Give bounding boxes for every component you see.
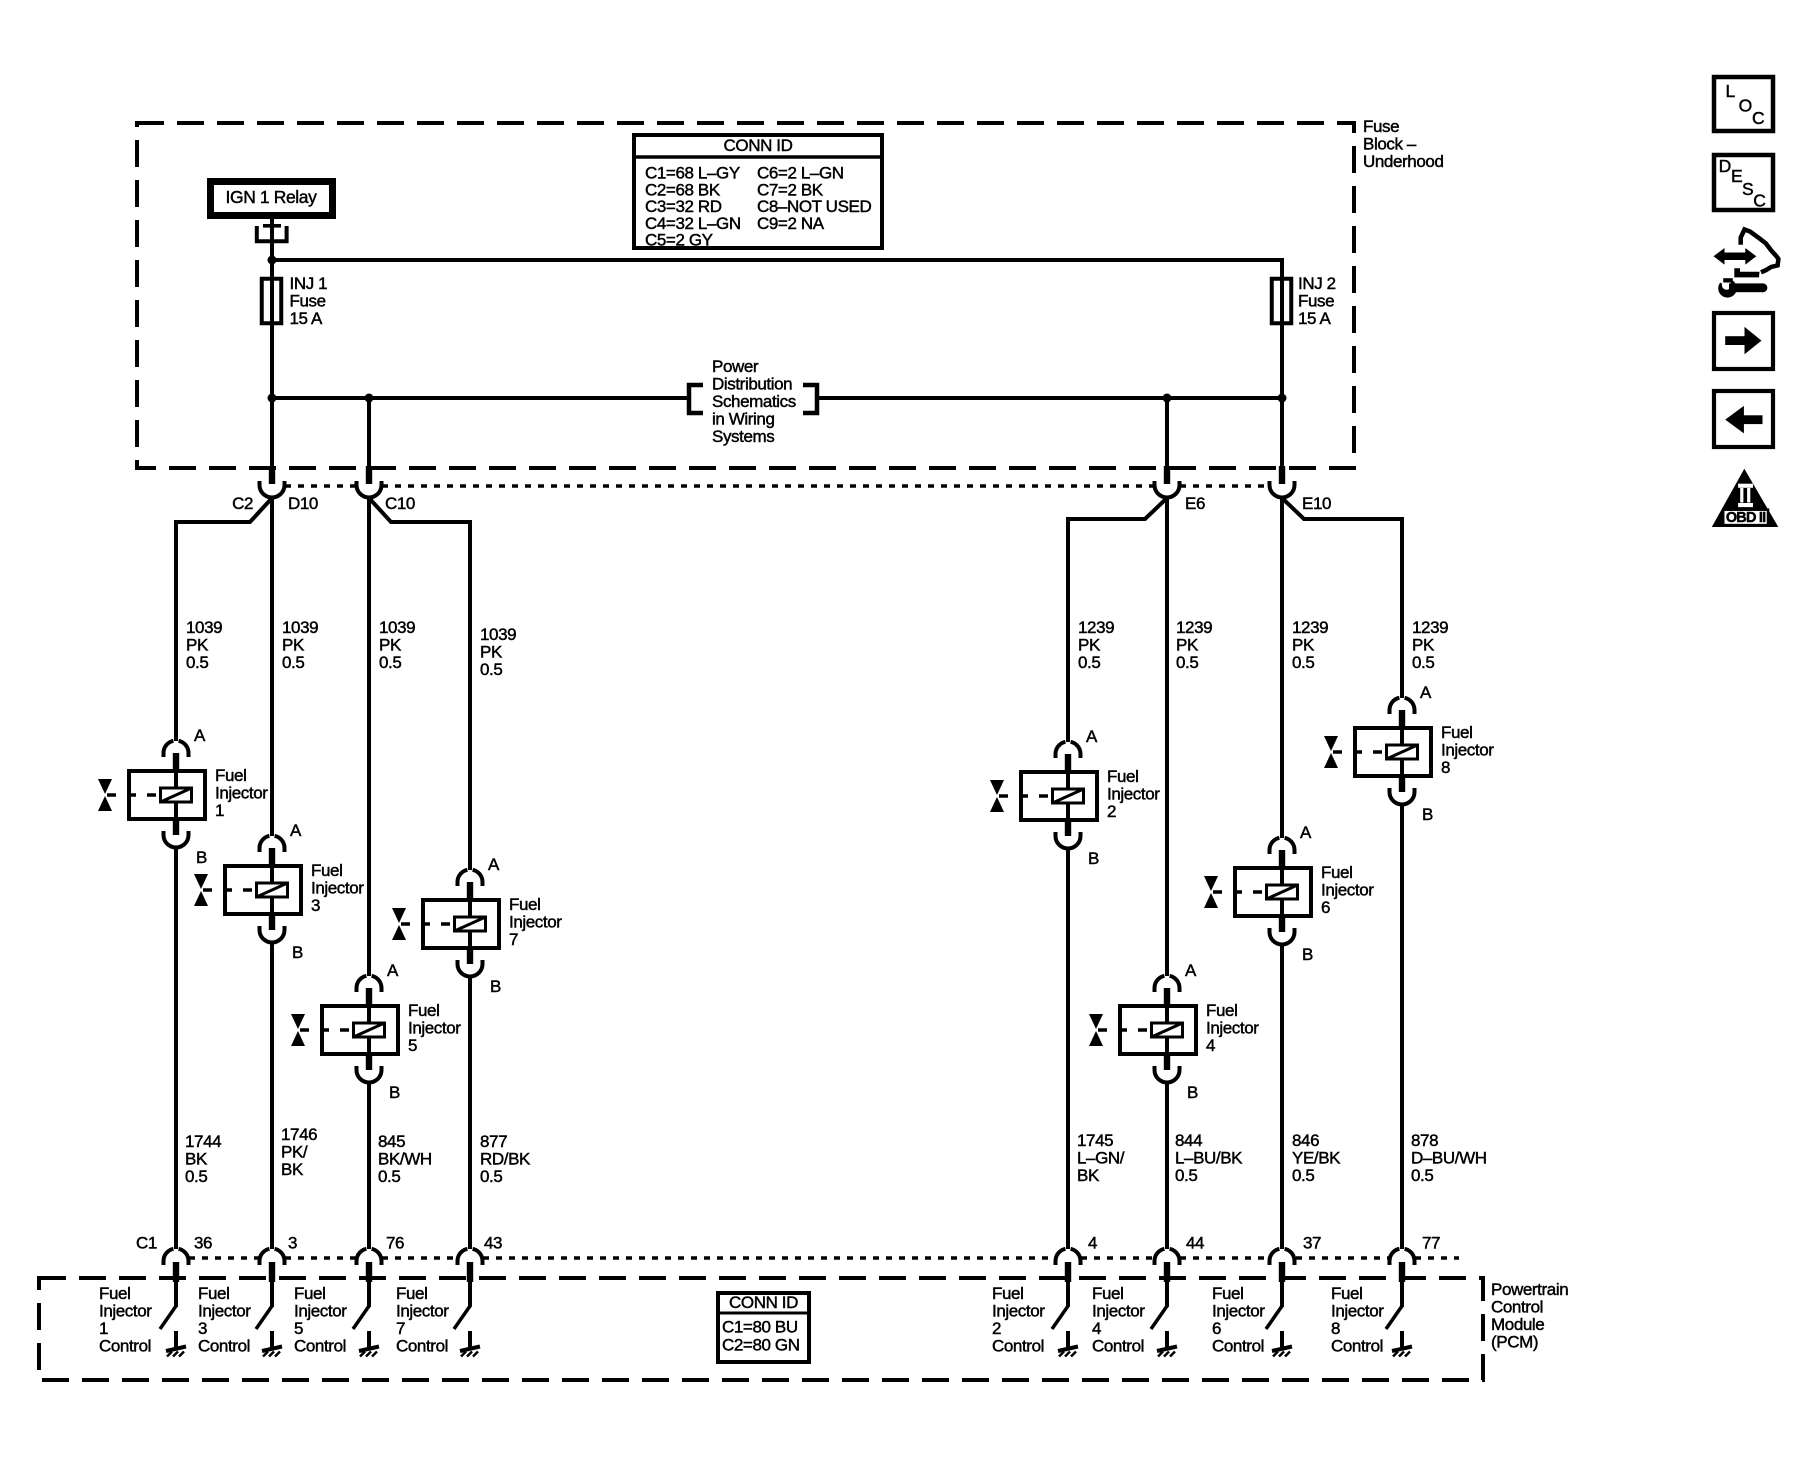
fuse: INJ 2 Fuse 15 A: [1272, 274, 1336, 328]
injector 7 body: [423, 900, 499, 948]
svg-text:Injector: Injector: [1206, 1019, 1259, 1038]
wire label 878 D–BU/WH 0.5: [1411, 1131, 1487, 1185]
connector pin 3: plug: [260, 1249, 285, 1307]
svg-text:B: B: [490, 977, 501, 996]
svg-text:B: B: [1422, 805, 1433, 824]
svg-text:B: B: [196, 848, 207, 867]
svg-text:L–GN/: L–GN/: [1077, 1149, 1125, 1168]
wire label 1746 PK/ BK: [281, 1125, 317, 1179]
dotted connector row: PCM: [189, 1256, 1459, 1260]
svg-text:PK/: PK/: [281, 1143, 308, 1162]
svg-text:Control: Control: [1212, 1337, 1264, 1356]
svg-text:7: 7: [509, 930, 518, 949]
svg-text:15 A: 15 A: [1298, 309, 1331, 328]
wire: relay output down to feed junction: [270, 219, 274, 262]
svg-text:76: 76: [386, 1234, 404, 1253]
fuel injector 4: [1089, 961, 1259, 1102]
svg-text:2: 2: [1107, 802, 1116, 821]
svg-text:O: O: [1739, 96, 1752, 116]
injector 2 body: [1021, 772, 1097, 820]
svg-text:A: A: [1300, 823, 1312, 842]
injector 5 solenoid coil: [354, 1023, 385, 1037]
svg-text:Fuel: Fuel: [396, 1284, 427, 1303]
connector pin 43: plug: [458, 1249, 483, 1307]
injector 1 body: [129, 771, 205, 819]
wire label 1039 PK 0.5: [186, 618, 222, 672]
injector 1 nozzle valve: [107, 793, 159, 797]
connector C2 / D10: terminal stub: [269, 466, 275, 484]
fuse block: Fuse Block - Underhood dashed outline: [137, 123, 1354, 468]
svg-text:Fuel: Fuel: [1441, 723, 1472, 742]
pin A connector of injector 6: [1270, 838, 1280, 854]
wire label 1239 PK 0.5: [1412, 618, 1448, 672]
svg-text:E: E: [1731, 166, 1742, 186]
svg-text:Injector: Injector: [198, 1302, 251, 1321]
svg-text:C1=80 BU: C1=80 BU: [722, 1318, 798, 1337]
svg-text:Fuel: Fuel: [1212, 1284, 1243, 1303]
svg-text:A: A: [488, 855, 500, 874]
svg-text:Control: Control: [1092, 1337, 1144, 1356]
svg-text:8: 8: [1331, 1319, 1340, 1338]
wire label 1745 L–GN/ BK: [1077, 1131, 1125, 1185]
injector 1 solenoid coil: [161, 788, 192, 802]
svg-text:0.5: 0.5: [1411, 1166, 1433, 1185]
connector E6: socket: [1155, 481, 1180, 498]
icon: DESC box: [1714, 155, 1773, 211]
table: CONN ID (PCM): [716, 1293, 811, 1362]
svg-text:OBD II: OBD II: [1726, 510, 1766, 526]
pin A connector of injector 4: [1154, 976, 1164, 992]
wire: D10 straight to injector 3: [270, 498, 274, 836]
wire: bus down to connector E6: [1165, 398, 1169, 467]
driver switch: Fuel Injector 1 Control: [99, 1284, 186, 1357]
connector C10: terminal stub: [366, 466, 372, 484]
svg-text:(PCM): (PCM): [1491, 1333, 1538, 1352]
fuel injector 7: [392, 855, 562, 996]
svg-text:Injector: Injector: [1441, 741, 1494, 760]
driver switch: Fuel Injector 6 Control: [1212, 1284, 1292, 1357]
svg-text:D–BU/WH: D–BU/WH: [1411, 1149, 1487, 1168]
connector pin 76: plug: [357, 1249, 382, 1307]
svg-text:Block –: Block –: [1363, 135, 1417, 154]
svg-text:Fuel: Fuel: [198, 1284, 229, 1303]
pin B connector of injector 1: [173, 819, 179, 835]
svg-text:Fuel: Fuel: [1321, 863, 1352, 882]
svg-text:0.5: 0.5: [186, 653, 208, 672]
wire label 844 L–BU/BK 0.5: [1175, 1131, 1243, 1185]
connector E6: terminal stub: [1164, 466, 1170, 484]
injector 3 nozzle valve: [203, 888, 255, 892]
pin B connector of injector 3: [269, 914, 275, 930]
svg-text:Fuel: Fuel: [992, 1284, 1023, 1303]
svg-text:Fuel: Fuel: [1331, 1284, 1362, 1303]
injector 2 nozzle valve: [999, 794, 1051, 798]
svg-text:Injector: Injector: [1092, 1302, 1145, 1321]
svg-text:0.5: 0.5: [379, 653, 401, 672]
svg-text:2: 2: [992, 1319, 1001, 1338]
svg-text:Fuse: Fuse: [1363, 117, 1399, 136]
svg-text:C1: C1: [136, 1234, 157, 1253]
svg-text:RD/BK: RD/BK: [480, 1150, 531, 1169]
svg-text:B: B: [292, 943, 303, 962]
driver switch: Fuel Injector 8 Control: [1331, 1284, 1412, 1357]
tag: Power Distribution Schematics in Wiring Systems: [689, 357, 817, 446]
connector C2 / D10: socket: [260, 481, 285, 498]
svg-text:C2: C2: [232, 494, 253, 513]
svg-text:44: 44: [1186, 1234, 1204, 1253]
wire: E10 branch to injector 8: [1282, 498, 1402, 698]
injector 8 nozzle valve: [1333, 750, 1385, 754]
svg-text:0.5: 0.5: [1292, 653, 1314, 672]
svg-text:A: A: [194, 726, 206, 745]
svg-text:Fuse: Fuse: [290, 292, 326, 311]
svg-text:1039: 1039: [480, 625, 516, 644]
svg-text:C9=2 NA: C9=2 NA: [757, 214, 825, 233]
svg-text:Power: Power: [712, 357, 759, 376]
svg-text:3: 3: [288, 1234, 297, 1253]
svg-text:77: 77: [1422, 1234, 1440, 1253]
svg-text:Fuel: Fuel: [311, 861, 342, 880]
svg-text:PK: PK: [186, 636, 209, 655]
svg-text:Injector: Injector: [215, 784, 268, 803]
svg-text:PK: PK: [282, 636, 305, 655]
svg-text:6: 6: [1321, 898, 1330, 917]
injector 6 body: [1235, 868, 1311, 916]
pin B connector of injector 4: [1164, 1054, 1170, 1070]
injector 6 nozzle valve: [1213, 890, 1265, 894]
svg-text:0.5: 0.5: [282, 653, 304, 672]
svg-text:1039: 1039: [282, 618, 318, 637]
connector E10: terminal stub: [1279, 466, 1285, 484]
svg-text:0.5: 0.5: [1175, 1166, 1197, 1185]
svg-text:0.5: 0.5: [480, 1167, 502, 1186]
svg-text:3: 3: [198, 1319, 207, 1338]
label: Fuse Block - Underhood: [1363, 117, 1444, 171]
svg-text:C: C: [1753, 191, 1765, 211]
svg-text:1744: 1744: [185, 1132, 221, 1151]
junction: bus/injector feed A: [268, 394, 277, 403]
wire label 845 BK/WH 0.5: [378, 1132, 432, 1186]
svg-text:E10: E10: [1302, 494, 1331, 513]
wire: injector return at x=1402 down to PCM: [1400, 805, 1404, 1249]
connector pin 44: plug: [1154, 1249, 1179, 1307]
junction: bus/injector feed B: [365, 394, 374, 403]
wire: power bus right section: [819, 396, 1282, 400]
label: Powertrain Control Module (PCM): [1491, 1280, 1568, 1352]
svg-text:A: A: [1185, 961, 1197, 980]
wire: power bus left section: [272, 396, 687, 400]
svg-text:Control: Control: [992, 1337, 1044, 1356]
svg-text:YE/BK: YE/BK: [1292, 1149, 1341, 1168]
wire label 1744 BK 0.5: [185, 1132, 221, 1186]
icon: OBD II warning triangle: [1712, 469, 1779, 527]
svg-text:0.5: 0.5: [1078, 653, 1100, 672]
pin A connector of injector 8: [1390, 698, 1400, 714]
svg-text:INJ 1: INJ 1: [290, 274, 328, 293]
svg-text:Fuel: Fuel: [215, 766, 246, 785]
svg-text:1: 1: [215, 801, 224, 820]
svg-text:7: 7: [396, 1319, 405, 1338]
ground (injector 5 driver): [367, 1331, 371, 1347]
svg-text:1039: 1039: [186, 618, 222, 637]
svg-text:0.5: 0.5: [1176, 653, 1198, 672]
svg-text:C2=80 GN: C2=80 GN: [722, 1336, 800, 1355]
svg-text:37: 37: [1303, 1234, 1321, 1253]
svg-text:Injector: Injector: [992, 1302, 1045, 1321]
svg-text:B: B: [1088, 849, 1099, 868]
junction: bus/injector feed D: [1278, 394, 1287, 403]
svg-text:C10: C10: [385, 494, 415, 513]
injector 4 solenoid coil: [1152, 1023, 1183, 1037]
ground (injector 1 driver): [174, 1331, 178, 1347]
wire: C10 branch to injector 7: [369, 498, 470, 870]
svg-text:1239: 1239: [1292, 618, 1328, 637]
junction: relay feed node: [268, 256, 277, 265]
svg-text:Module: Module: [1491, 1315, 1544, 1334]
pin B connector of injector 7: [467, 948, 473, 964]
svg-text:Injector: Injector: [294, 1302, 347, 1321]
svg-text:INJ 2: INJ 2: [1298, 274, 1336, 293]
wire label 877 RD/BK 0.5: [480, 1132, 531, 1186]
PCM: Powertrain Control Module dashed outline: [39, 1278, 1483, 1380]
injector 7 nozzle valve: [401, 922, 453, 926]
svg-text:Fuel: Fuel: [509, 895, 540, 914]
svg-text:PK: PK: [379, 636, 402, 655]
ground (injector 4 driver): [1165, 1331, 1169, 1347]
ground (injector 6 driver): [1280, 1331, 1284, 1347]
pin A connector of injector 2: [1056, 742, 1066, 758]
svg-text:15 A: 15 A: [290, 309, 323, 328]
svg-text:Fuel: Fuel: [408, 1001, 439, 1020]
ground (injector 8 driver): [1400, 1331, 1404, 1347]
pin A connector of injector 3: [260, 836, 270, 852]
svg-text:4: 4: [1206, 1036, 1215, 1055]
svg-text:BK/WH: BK/WH: [378, 1150, 432, 1169]
svg-text:Control: Control: [1491, 1298, 1543, 1317]
svg-text:846: 846: [1292, 1131, 1319, 1150]
pin B connector of injector 5: [366, 1054, 372, 1070]
svg-text:E6: E6: [1185, 494, 1205, 513]
svg-text:C5=2 GY: C5=2 GY: [645, 231, 713, 250]
svg-text:1239: 1239: [1412, 618, 1448, 637]
pin A connector of injector 1: [164, 741, 174, 757]
injector 4 nozzle valve: [1098, 1028, 1150, 1032]
injector 4 body: [1120, 1006, 1196, 1054]
svg-text:Fuel: Fuel: [1206, 1001, 1237, 1020]
connector bracket under IGN 1 Relay: [257, 224, 287, 241]
svg-text:in Wiring: in Wiring: [712, 410, 775, 429]
svg-text:B: B: [1302, 945, 1313, 964]
svg-text:A: A: [290, 821, 302, 840]
wire: C2 branch to injector 1: [176, 498, 272, 741]
connector pin 36: plug: [163, 1249, 188, 1307]
injector 7 solenoid coil: [455, 917, 486, 931]
svg-text:Fuel: Fuel: [99, 1284, 130, 1303]
svg-text:A: A: [1420, 683, 1432, 702]
svg-text:Control: Control: [198, 1337, 250, 1356]
wire: injector return at x=176 down to PCM: [174, 848, 178, 1249]
wire: relay feed down through INJ 1 fuse to bus: [270, 260, 274, 398]
svg-text:S: S: [1742, 179, 1753, 199]
pin B connector of injector 6: [1279, 916, 1285, 932]
injector 3 solenoid coil: [257, 883, 288, 897]
pin B connector of injector 2: [1065, 820, 1071, 836]
fuel injector 5: [291, 961, 461, 1102]
wire: injector return at x=1068 down to PCM: [1066, 849, 1070, 1249]
svg-text:BK: BK: [281, 1160, 304, 1179]
pin B connector of injector 8: [1399, 776, 1405, 792]
icon: LOC box: [1714, 77, 1773, 131]
svg-text:1239: 1239: [1176, 618, 1212, 637]
svg-text:A: A: [1086, 727, 1098, 746]
wire label 1039 PK 0.5: [282, 618, 318, 672]
injector 2 solenoid coil: [1053, 789, 1084, 803]
wire: E6 branch to injector 2: [1068, 498, 1167, 742]
wire label 1039 PK 0.5: [480, 625, 516, 679]
svg-text:Injector: Injector: [1212, 1302, 1265, 1321]
svg-text:Injector: Injector: [408, 1019, 461, 1038]
connector C10: socket: [357, 481, 382, 498]
svg-text:Injector: Injector: [99, 1302, 152, 1321]
driver switch: Fuel Injector 2 Control: [992, 1284, 1078, 1357]
pin A connector of injector 7: [458, 870, 468, 886]
icon: schematic navigation (arrows over harness + wrench): [1714, 230, 1779, 298]
driver switch: Fuel Injector 5 Control: [294, 1284, 379, 1357]
fuse: INJ 1 Fuse 15 A: [262, 274, 327, 328]
injector 8 solenoid coil: [1387, 745, 1418, 759]
svg-text:Fuel: Fuel: [1092, 1284, 1123, 1303]
svg-text:877: 877: [480, 1132, 507, 1151]
svg-text:878: 878: [1411, 1131, 1438, 1150]
connector E10: socket: [1270, 481, 1295, 498]
svg-text:Control: Control: [396, 1337, 448, 1356]
svg-text:Underhood: Underhood: [1363, 152, 1444, 171]
svg-text:BK: BK: [185, 1150, 208, 1169]
wire: feed across to INJ 2 fuse: [272, 260, 1282, 279]
svg-text:PK: PK: [1176, 636, 1199, 655]
svg-text:5: 5: [408, 1036, 417, 1055]
fuel injector 2: [990, 727, 1160, 868]
wire: injector return at x=1282 down to PCM: [1280, 945, 1284, 1249]
injector 6 solenoid coil: [1267, 885, 1298, 899]
driver switch: Fuel Injector 3 Control: [198, 1284, 282, 1357]
wire: E6 straight to injector 4: [1165, 498, 1169, 976]
injector 3 body: [225, 866, 301, 914]
svg-text:845: 845: [378, 1132, 405, 1151]
svg-text:Schematics: Schematics: [712, 392, 796, 411]
injector 5 body: [322, 1006, 398, 1054]
svg-text:1239: 1239: [1078, 618, 1114, 637]
table: CONN ID (fuse block): [632, 135, 884, 250]
svg-text:B: B: [1187, 1083, 1198, 1102]
injector 8 body: [1355, 728, 1431, 776]
connector pin 4: plug: [1056, 1249, 1081, 1307]
wire label 846 YE/BK 0.5: [1292, 1131, 1341, 1185]
wire: injector return at x=1167 down to PCM: [1165, 1083, 1169, 1249]
svg-text:Systems: Systems: [712, 427, 774, 446]
wire: injector return at x=369 down to PCM: [367, 1083, 371, 1249]
svg-text:CONN ID: CONN ID: [724, 136, 793, 155]
svg-text:Fuse: Fuse: [1298, 292, 1334, 311]
svg-text:1039: 1039: [379, 618, 415, 637]
svg-text:43: 43: [484, 1234, 502, 1253]
wire: INJ 2 fuse down to bus: [1280, 279, 1284, 398]
wire: injector return at x=272 down to PCM: [270, 943, 274, 1249]
wire: C10 straight to injector 5: [367, 498, 371, 976]
svg-text:4: 4: [1088, 1234, 1097, 1253]
svg-text:Injector: Injector: [1331, 1302, 1384, 1321]
svg-text:Injector: Injector: [1321, 881, 1374, 900]
svg-text:Powertrain: Powertrain: [1491, 1280, 1568, 1299]
junction: bus/injector feed C: [1163, 394, 1172, 403]
svg-text:Injector: Injector: [1107, 785, 1160, 804]
svg-text:1746: 1746: [281, 1125, 317, 1144]
wire: injector return at x=470 down to PCM: [468, 977, 472, 1249]
fuel injector 1: [98, 726, 268, 867]
fuel injector 8: [1324, 683, 1494, 824]
dotted connector row: fuse block bottom: [285, 484, 1269, 488]
svg-text:D10: D10: [288, 494, 318, 513]
icon: forward arrow box: [1714, 313, 1773, 369]
svg-text:1: 1: [99, 1319, 108, 1338]
svg-text:6: 6: [1212, 1319, 1221, 1338]
svg-text:PK: PK: [1412, 636, 1435, 655]
svg-text:Control: Control: [99, 1337, 151, 1356]
injector 5 nozzle valve: [300, 1028, 352, 1032]
svg-text:Injector: Injector: [311, 879, 364, 898]
svg-text:0.5: 0.5: [1412, 653, 1434, 672]
pin A connector of injector 5: [357, 976, 367, 992]
svg-text:L–BU/BK: L–BU/BK: [1175, 1149, 1243, 1168]
svg-text:0.5: 0.5: [1292, 1166, 1314, 1185]
wire label 1239 PK 0.5: [1176, 618, 1212, 672]
svg-text:3: 3: [311, 896, 320, 915]
svg-text:Injector: Injector: [396, 1302, 449, 1321]
svg-text:CONN ID: CONN ID: [729, 1293, 798, 1312]
svg-text:D: D: [1719, 156, 1731, 176]
wire label 1239 PK 0.5: [1292, 618, 1328, 672]
icon: back arrow box: [1714, 391, 1773, 447]
svg-text:A: A: [387, 961, 399, 980]
connector pin 37: plug: [1270, 1249, 1295, 1307]
svg-text:Distribution: Distribution: [712, 375, 792, 394]
svg-text:Control: Control: [294, 1337, 346, 1356]
svg-text:0.5: 0.5: [378, 1167, 400, 1186]
ground (injector 7 driver): [468, 1331, 472, 1347]
wire label 1039 PK 0.5: [379, 618, 415, 672]
wire: bus down to connector C10: [367, 398, 371, 467]
svg-text:Fuel: Fuel: [1107, 767, 1138, 786]
svg-text:PK: PK: [480, 643, 503, 662]
svg-text:Injector: Injector: [509, 913, 562, 932]
svg-text:L: L: [1726, 81, 1736, 101]
driver switch: Fuel Injector 4 Control: [1092, 1284, 1177, 1357]
fuel injector 6: [1204, 823, 1374, 964]
svg-text:5: 5: [294, 1319, 303, 1338]
svg-text:Fuel: Fuel: [294, 1284, 325, 1303]
svg-text:1745: 1745: [1077, 1131, 1113, 1150]
svg-text:36: 36: [194, 1234, 212, 1253]
svg-text:B: B: [389, 1083, 400, 1102]
ground (injector 2 driver): [1066, 1331, 1070, 1347]
svg-text:PK: PK: [1078, 636, 1101, 655]
driver switch: Fuel Injector 7 Control: [396, 1284, 480, 1357]
svg-text:0.5: 0.5: [480, 660, 502, 679]
connector pin 77: plug: [1390, 1249, 1415, 1307]
svg-text:BK: BK: [1077, 1166, 1100, 1185]
svg-text:8: 8: [1441, 758, 1450, 777]
svg-text:IGN 1 Relay: IGN 1 Relay: [226, 187, 318, 207]
